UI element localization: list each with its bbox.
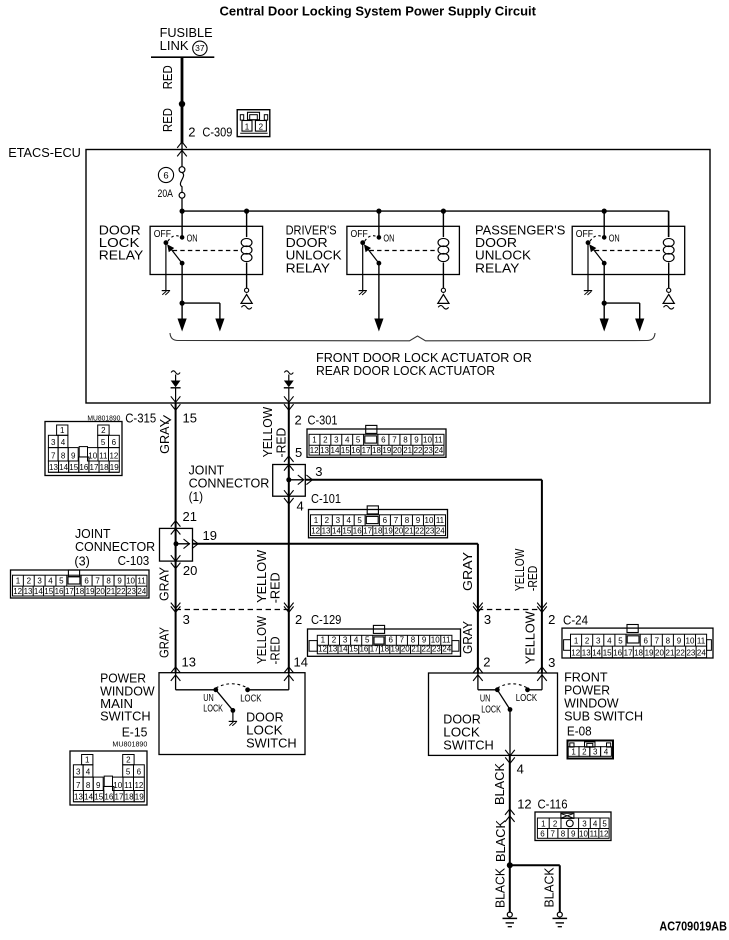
svg-text:YELLOW: YELLOW bbox=[260, 406, 275, 457]
svg-text:GRAY: GRAY bbox=[157, 567, 172, 601]
wire: internal bus from fuse to relays bbox=[182, 210, 669, 212]
svg-text:2: 2 bbox=[483, 655, 490, 670]
svg-text:20: 20 bbox=[96, 587, 105, 596]
svg-text:22: 22 bbox=[117, 587, 126, 596]
svg-text:12: 12 bbox=[311, 526, 320, 535]
svg-text:17: 17 bbox=[115, 792, 124, 801]
svg-text:RED: RED bbox=[160, 108, 175, 132]
wire: GRAY from ETACS C-315 to main switch bbox=[175, 403, 177, 673]
svg-text:7: 7 bbox=[655, 637, 660, 646]
svg-text:23: 23 bbox=[432, 645, 441, 654]
svg-text:YELLOW: YELLOW bbox=[523, 611, 538, 665]
svg-text:9: 9 bbox=[677, 637, 682, 646]
svg-text:-RED: -RED bbox=[274, 428, 289, 458]
label: C-315 with pointer bbox=[87, 411, 170, 426]
connector graphic E-08 bbox=[568, 741, 614, 759]
svg-text:20: 20 bbox=[401, 645, 410, 654]
svg-text:LOCK: LOCK bbox=[203, 703, 223, 715]
svg-text:23: 23 bbox=[424, 446, 433, 455]
svg-text:13: 13 bbox=[322, 526, 331, 535]
svg-text:8: 8 bbox=[405, 516, 410, 525]
svg-text:1: 1 bbox=[245, 123, 250, 132]
svg-text:9: 9 bbox=[96, 781, 101, 790]
junction: bus / relay3 switch bbox=[602, 209, 607, 214]
svg-text:12: 12 bbox=[318, 645, 327, 654]
svg-text:8: 8 bbox=[561, 830, 566, 839]
label PASSENGER'S DOOR UNLOCK RELAY bbox=[475, 222, 566, 275]
svg-text:RED: RED bbox=[160, 65, 175, 89]
door lock switch (main switch) internals bbox=[176, 673, 289, 722]
svg-text:1: 1 bbox=[314, 516, 319, 525]
svg-text:15: 15 bbox=[94, 792, 103, 801]
svg-text:8: 8 bbox=[403, 436, 408, 445]
svg-text:LOCK: LOCK bbox=[516, 692, 537, 704]
svg-text:C-101: C-101 bbox=[311, 491, 341, 506]
svg-text:2: 2 bbox=[548, 612, 555, 627]
wire: bus corner to relay3 coil bbox=[668, 211, 670, 237]
svg-text:1: 1 bbox=[571, 748, 576, 757]
svg-text:20A: 20A bbox=[158, 188, 174, 200]
label: pin 2 C-24 bbox=[548, 612, 588, 627]
svg-text:2: 2 bbox=[188, 124, 195, 139]
svg-text:6: 6 bbox=[540, 830, 545, 839]
junction: bus / relay2 coil bbox=[441, 209, 446, 214]
svg-text:4: 4 bbox=[593, 820, 598, 829]
svg-text:8: 8 bbox=[666, 637, 671, 646]
svg-text:19: 19 bbox=[203, 528, 217, 543]
svg-text:11: 11 bbox=[137, 577, 146, 586]
svg-text:CONNECTOR: CONNECTOR bbox=[75, 539, 155, 554]
wire: BLACK branch to right ground bbox=[510, 865, 560, 912]
svg-text:4: 4 bbox=[48, 577, 53, 586]
svg-text:3: 3 bbox=[484, 612, 491, 627]
svg-text:13: 13 bbox=[320, 446, 329, 455]
svg-text:ON: ON bbox=[187, 232, 198, 244]
svg-text:10: 10 bbox=[423, 436, 432, 445]
label FRONT POWER WINDOW SUB SWITCH E-08 bbox=[564, 670, 643, 739]
svg-text:2: 2 bbox=[295, 413, 302, 428]
svg-text:1: 1 bbox=[312, 436, 317, 445]
svg-text:ON: ON bbox=[383, 232, 394, 244]
svg-text:23: 23 bbox=[425, 526, 434, 535]
svg-text:6: 6 bbox=[389, 636, 394, 645]
svg-text:2: 2 bbox=[259, 123, 264, 132]
svg-text:BLACK: BLACK bbox=[493, 868, 508, 908]
svg-text:(3): (3) bbox=[74, 554, 89, 569]
svg-text:-RED: -RED bbox=[525, 566, 540, 591]
svg-text:C-24: C-24 bbox=[563, 613, 588, 628]
svg-text:2: 2 bbox=[582, 748, 587, 757]
svg-text:3: 3 bbox=[183, 612, 190, 627]
svg-text:5: 5 bbox=[356, 436, 361, 445]
svg-text:21: 21 bbox=[411, 645, 420, 654]
diode: ETACS internal output (GRAY circuit) bbox=[171, 371, 181, 403]
ground: body ground (right) bbox=[553, 912, 568, 927]
svg-text:3: 3 bbox=[548, 655, 555, 670]
svg-text:12: 12 bbox=[13, 587, 22, 596]
junction: bus / relay2 switch bbox=[376, 209, 381, 214]
svg-text:GRAY: GRAY bbox=[157, 419, 172, 454]
connector crossing: joint connector (3) pin 21 bbox=[171, 521, 181, 535]
svg-text:12: 12 bbox=[310, 446, 319, 455]
svg-text:24: 24 bbox=[137, 587, 146, 596]
svg-text:3: 3 bbox=[593, 748, 598, 757]
junction: bus / relay1 switch bbox=[180, 209, 185, 214]
svg-text:C-301: C-301 bbox=[308, 413, 338, 428]
svg-text:GRAY: GRAY bbox=[460, 552, 475, 591]
svg-text:4: 4 bbox=[297, 499, 304, 514]
svg-text:2: 2 bbox=[27, 577, 32, 586]
svg-text:4: 4 bbox=[346, 516, 351, 525]
svg-text:16: 16 bbox=[613, 649, 622, 658]
svg-text:22: 22 bbox=[422, 645, 431, 654]
svg-text:19: 19 bbox=[382, 446, 391, 455]
svg-text:15: 15 bbox=[44, 587, 53, 596]
labels UN LOCK / LOCK (sub switch) bbox=[480, 692, 537, 715]
svg-text:BLACK: BLACK bbox=[542, 867, 557, 907]
svg-text:RELAY: RELAY bbox=[475, 260, 520, 275]
svg-text:11: 11 bbox=[442, 636, 451, 645]
label: pin 2 C-129 bbox=[295, 612, 341, 627]
svg-text:-RED: -RED bbox=[268, 572, 283, 603]
dashed link: connector C-24 (GRAY / YELLOW-RED) bbox=[478, 609, 542, 611]
fusible link 37 bbox=[151, 25, 214, 57]
connector crossing C-129 on YELLOW-RED wire bbox=[284, 603, 294, 613]
svg-text:C-309: C-309 bbox=[202, 124, 232, 139]
svg-text:BLACK: BLACK bbox=[492, 763, 507, 805]
svg-text:1: 1 bbox=[574, 637, 579, 646]
connector crossing E-08 pin 3 bbox=[537, 667, 547, 681]
wire: joint connector (1) pin 3 branch to sub switch (YELLOW-RED) bbox=[289, 480, 542, 673]
svg-text:21: 21 bbox=[405, 526, 414, 535]
svg-text:17: 17 bbox=[90, 463, 99, 472]
relay K3: PASSENGER'S DOOR UNLOCK RELAY bbox=[572, 211, 685, 331]
svg-text:6: 6 bbox=[84, 577, 89, 586]
svg-text:ON: ON bbox=[609, 232, 620, 244]
svg-text:9: 9 bbox=[416, 516, 421, 525]
svg-text:4: 4 bbox=[86, 768, 91, 777]
svg-text:3: 3 bbox=[334, 436, 339, 445]
svg-text:GRAY: GRAY bbox=[460, 621, 475, 654]
svg-text:OFF: OFF bbox=[576, 228, 593, 240]
svg-text:SWITCH: SWITCH bbox=[246, 736, 297, 751]
svg-text:14: 14 bbox=[339, 645, 348, 654]
svg-text:5: 5 bbox=[101, 438, 106, 447]
svg-text:BLACK: BLACK bbox=[493, 820, 508, 862]
svg-text:OFF: OFF bbox=[351, 228, 368, 240]
svg-text:5: 5 bbox=[295, 445, 302, 460]
label YELLOW-RED (center, middle) bbox=[254, 549, 282, 603]
svg-text:C-315: C-315 bbox=[125, 411, 156, 426]
svg-text:12: 12 bbox=[600, 830, 609, 839]
svg-text:7: 7 bbox=[551, 830, 556, 839]
svg-text:14: 14 bbox=[59, 463, 68, 472]
svg-text:9: 9 bbox=[71, 452, 76, 461]
svg-text:22: 22 bbox=[676, 649, 685, 658]
label DOOR LOCK RELAY bbox=[99, 222, 144, 262]
svg-text:9: 9 bbox=[571, 830, 576, 839]
svg-text:20: 20 bbox=[394, 526, 403, 535]
junction: RED wire splice bbox=[179, 101, 185, 107]
junction: BLACK wire split to grounds bbox=[507, 862, 513, 868]
svg-text:10: 10 bbox=[88, 452, 97, 461]
connector crossing: joint connector (1) pin 5 bbox=[284, 456, 294, 471]
svg-text:5: 5 bbox=[602, 820, 607, 829]
svg-text:8: 8 bbox=[106, 577, 111, 586]
svg-text:12: 12 bbox=[109, 452, 118, 461]
connector crossing C-315 at ETACS exit bbox=[171, 396, 181, 410]
connector graphic C-301 bbox=[307, 425, 446, 457]
svg-text:15: 15 bbox=[342, 526, 351, 535]
svg-text:SWITCH: SWITCH bbox=[443, 738, 494, 753]
svg-text:18: 18 bbox=[372, 446, 381, 455]
svg-text:16: 16 bbox=[104, 792, 113, 801]
svg-text:20: 20 bbox=[655, 649, 664, 658]
svg-text:16: 16 bbox=[359, 645, 368, 654]
wire: BLACK from sub switch to ground bbox=[509, 755, 511, 912]
svg-text:3: 3 bbox=[37, 577, 42, 586]
connector graphic C-116 bbox=[535, 812, 611, 841]
svg-text:5: 5 bbox=[59, 577, 64, 586]
power window main switch box (E-15) bbox=[159, 673, 305, 755]
relay K2: DRIVER'S DOOR UNLOCK RELAY bbox=[347, 211, 460, 331]
label DRIVER'S DOOR UNLOCK RELAY bbox=[286, 222, 342, 275]
connector crossing C-116 bbox=[505, 809, 515, 822]
svg-text:18: 18 bbox=[634, 649, 643, 658]
svg-text:E-08: E-08 bbox=[567, 723, 592, 738]
svg-text:9: 9 bbox=[422, 636, 427, 645]
svg-text:1: 1 bbox=[321, 636, 326, 645]
svg-text:11: 11 bbox=[124, 781, 133, 790]
svg-text:12: 12 bbox=[134, 781, 143, 790]
svg-text:11: 11 bbox=[697, 637, 706, 646]
svg-text:OFF: OFF bbox=[154, 228, 171, 240]
svg-text:5: 5 bbox=[618, 637, 623, 646]
svg-text:14: 14 bbox=[34, 587, 43, 596]
connector crossing: joint connector (1) pin 4 bbox=[284, 490, 294, 504]
svg-text:12: 12 bbox=[517, 797, 531, 812]
svg-text:37: 37 bbox=[195, 43, 205, 53]
svg-text:13: 13 bbox=[182, 654, 196, 669]
joint connector (3) bbox=[160, 528, 193, 561]
svg-text:-RED: -RED bbox=[268, 637, 283, 665]
svg-text:17: 17 bbox=[370, 645, 379, 654]
svg-text:14: 14 bbox=[331, 446, 340, 455]
svg-text:6: 6 bbox=[137, 768, 142, 777]
svg-text:15: 15 bbox=[341, 446, 350, 455]
front power window sub switch box (E-08) bbox=[429, 673, 558, 755]
connector crossing C-24 on GRAY wire bbox=[473, 603, 483, 613]
svg-text:13: 13 bbox=[24, 587, 33, 596]
svg-text:18: 18 bbox=[75, 587, 84, 596]
svg-text:21: 21 bbox=[183, 509, 197, 524]
svg-text:2: 2 bbox=[126, 755, 131, 764]
svg-text:SWITCH: SWITCH bbox=[100, 709, 151, 724]
svg-text:21: 21 bbox=[666, 649, 675, 658]
svg-text:4: 4 bbox=[345, 436, 350, 445]
svg-text:15: 15 bbox=[183, 411, 197, 426]
svg-text:13: 13 bbox=[582, 649, 591, 658]
svg-text:3: 3 bbox=[343, 636, 348, 645]
svg-text:12: 12 bbox=[571, 649, 580, 658]
diode: ETACS internal output (YELLOW-RED circuit) bbox=[284, 371, 294, 403]
svg-text:1: 1 bbox=[85, 755, 90, 764]
svg-text:7: 7 bbox=[400, 636, 405, 645]
svg-text:14: 14 bbox=[332, 526, 341, 535]
svg-text:2: 2 bbox=[332, 636, 337, 645]
svg-text:6: 6 bbox=[112, 438, 117, 447]
svg-text:16: 16 bbox=[351, 446, 360, 455]
svg-text:C-116: C-116 bbox=[538, 797, 568, 812]
svg-text:24: 24 bbox=[434, 446, 443, 455]
svg-text:1: 1 bbox=[16, 577, 21, 586]
svg-text:14: 14 bbox=[294, 655, 308, 670]
svg-text:16: 16 bbox=[353, 526, 362, 535]
svg-text:LINK: LINK bbox=[160, 38, 189, 53]
svg-text:4: 4 bbox=[61, 438, 66, 447]
svg-text:Central Door Locking System Po: Central Door Locking System Power Supply… bbox=[220, 3, 537, 18]
svg-text:4: 4 bbox=[604, 748, 609, 757]
svg-text:11: 11 bbox=[590, 830, 599, 839]
connector crossing E-15 pin 14 bbox=[284, 667, 294, 681]
svg-text:10: 10 bbox=[113, 781, 122, 790]
svg-text:GRAY: GRAY bbox=[157, 627, 172, 658]
svg-text:7: 7 bbox=[394, 516, 399, 525]
connector graphic MU801890 (E-15) bbox=[70, 751, 147, 805]
labels UN LOCK / LOCK (main switch) bbox=[203, 692, 261, 714]
ETACS-ECU box bbox=[86, 150, 710, 404]
svg-text:16: 16 bbox=[79, 463, 88, 472]
svg-text:14: 14 bbox=[84, 792, 93, 801]
svg-text:2: 2 bbox=[585, 637, 590, 646]
svg-text:10: 10 bbox=[579, 830, 588, 839]
svg-text:17: 17 bbox=[363, 526, 372, 535]
junction: bus / relay1 coil bbox=[244, 209, 249, 214]
door lock switch (sub switch) internals bbox=[478, 673, 542, 755]
svg-text:17: 17 bbox=[362, 446, 371, 455]
wire: RED battery feed from fusible link bbox=[181, 57, 184, 143]
connector graphic C-103 bbox=[11, 570, 150, 598]
svg-text:10: 10 bbox=[126, 577, 135, 586]
connector crossing: joint connector (3) pin 20 bbox=[171, 555, 181, 568]
svg-text:8: 8 bbox=[411, 636, 416, 645]
svg-text:4: 4 bbox=[607, 637, 612, 646]
svg-text:20: 20 bbox=[393, 446, 402, 455]
svg-text:2: 2 bbox=[323, 436, 328, 445]
svg-text:E-15: E-15 bbox=[122, 724, 148, 739]
svg-text:ETACS-ECU: ETACS-ECU bbox=[8, 145, 81, 160]
svg-text:RELAY: RELAY bbox=[286, 260, 331, 275]
svg-text:15: 15 bbox=[603, 649, 612, 658]
svg-text:C-129: C-129 bbox=[311, 612, 341, 627]
svg-text:13: 13 bbox=[74, 792, 83, 801]
svg-text:4: 4 bbox=[354, 636, 359, 645]
svg-text:3: 3 bbox=[596, 637, 601, 646]
connector crossing C-309 into ETACS-ECU bbox=[177, 142, 187, 157]
label JOINT CONNECTOR (1) bbox=[189, 462, 270, 504]
connector crossing: joint connector (3) pin 19 bbox=[184, 539, 199, 549]
svg-text:19: 19 bbox=[391, 645, 400, 654]
svg-text:REAR DOOR LOCK ACTUATOR: REAR DOOR LOCK ACTUATOR bbox=[316, 363, 495, 378]
svg-text:7: 7 bbox=[392, 436, 397, 445]
svg-text:15: 15 bbox=[69, 463, 78, 472]
svg-text:6: 6 bbox=[163, 170, 168, 181]
svg-text:5: 5 bbox=[357, 516, 362, 525]
svg-text:13: 13 bbox=[49, 463, 58, 472]
connector graphic C-24 bbox=[562, 625, 713, 659]
svg-text:2: 2 bbox=[101, 426, 106, 435]
label POWER WINDOW MAIN SWITCH E-15 bbox=[100, 671, 155, 749]
connector crossing E-08 pin 2 bbox=[473, 667, 483, 681]
svg-text:5: 5 bbox=[126, 768, 131, 777]
label YELLOW-RED (right, above C-24) bbox=[512, 548, 540, 591]
svg-text:SUB SWITCH: SUB SWITCH bbox=[564, 709, 643, 724]
connector graphic C-129 bbox=[308, 625, 461, 656]
svg-text:21: 21 bbox=[403, 446, 412, 455]
svg-text:3: 3 bbox=[315, 464, 322, 479]
svg-text:LOCK: LOCK bbox=[240, 693, 261, 705]
svg-text:2: 2 bbox=[325, 516, 330, 525]
connector C-309 icon bbox=[237, 110, 270, 137]
svg-text:(1): (1) bbox=[189, 489, 203, 504]
svg-text:24: 24 bbox=[436, 526, 445, 535]
svg-text:23: 23 bbox=[686, 649, 695, 658]
label JOINT CONNECTOR (3) C-103 bbox=[74, 526, 155, 569]
svg-text:MU801890: MU801890 bbox=[112, 740, 147, 749]
relay K1: DOOR LOCK RELAY bbox=[150, 211, 263, 331]
label DOOR LOCK SWITCH (main) bbox=[246, 710, 297, 751]
svg-text:3: 3 bbox=[76, 768, 81, 777]
svg-text:8: 8 bbox=[61, 452, 66, 461]
label: pin 2 C-301 bbox=[295, 413, 338, 428]
svg-text:10: 10 bbox=[686, 637, 695, 646]
svg-text:1: 1 bbox=[541, 820, 546, 829]
svg-text:11: 11 bbox=[434, 436, 443, 445]
svg-text:18: 18 bbox=[100, 463, 109, 472]
svg-text:AC709019AB: AC709019AB bbox=[659, 919, 727, 934]
fuse 6 (20A) bbox=[158, 150, 185, 211]
svg-text:9: 9 bbox=[117, 577, 122, 586]
svg-text:5: 5 bbox=[365, 636, 370, 645]
svg-text:10: 10 bbox=[431, 636, 440, 645]
label DOOR LOCK SWITCH (sub) bbox=[443, 712, 494, 753]
svg-text:22: 22 bbox=[415, 526, 424, 535]
svg-text:RELAY: RELAY bbox=[99, 248, 144, 263]
svg-text:8: 8 bbox=[86, 781, 91, 790]
label: pin 12 C-116 bbox=[517, 797, 567, 812]
svg-text:3: 3 bbox=[582, 820, 587, 829]
svg-text:18: 18 bbox=[380, 645, 389, 654]
dashed link: connector C-129 (GRAY / YELLOW-RED) bbox=[176, 609, 289, 611]
svg-text:6: 6 bbox=[381, 436, 386, 445]
svg-text:11: 11 bbox=[99, 452, 108, 461]
joint connector (1) bbox=[273, 465, 306, 497]
label YELLOW-RED (center, above main switch) bbox=[254, 615, 282, 664]
connector crossing C-301 at ETACS exit bbox=[284, 396, 294, 410]
svg-text:19: 19 bbox=[645, 649, 654, 658]
svg-text:1: 1 bbox=[60, 426, 65, 435]
svg-text:3: 3 bbox=[51, 438, 56, 447]
connector crossing C-129 on GRAY wire bbox=[171, 603, 181, 613]
connector crossing E-15 pin 13 bbox=[171, 667, 181, 681]
svg-text:19: 19 bbox=[110, 463, 119, 472]
connector crossing: joint connector (1) pin 3 bbox=[298, 475, 313, 485]
svg-text:7: 7 bbox=[51, 452, 56, 461]
svg-text:24: 24 bbox=[442, 645, 451, 654]
svg-text:19: 19 bbox=[384, 526, 393, 535]
svg-text:LOCK: LOCK bbox=[481, 703, 501, 715]
svg-text:16: 16 bbox=[55, 587, 64, 596]
